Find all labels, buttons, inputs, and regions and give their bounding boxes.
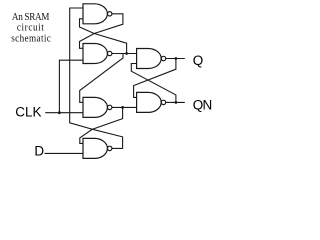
- wire CLK branch up to U2 lower input: [59, 60, 83, 112]
- wire U2 output to U5 top input: [112, 53, 137, 55]
- nand gate U5: [137, 49, 166, 69]
- wire D input horizontal: [45, 152, 84, 154]
- wire U3 output down to U4 top input: [80, 107, 123, 143]
- node U6 output junction: [175, 101, 178, 104]
- node CLK junction: [58, 111, 61, 114]
- node U3 output junction: [121, 106, 124, 109]
- wire U6 output feedback to U5 lower input: [131, 64, 176, 103]
- svg-text:D: D: [34, 144, 44, 159]
- nand gate U3: [83, 97, 112, 117]
- wire U1 output to U2 top input (cross-coupling): [80, 14, 123, 49]
- svg-text:schematic: schematic: [11, 33, 51, 45]
- node U2 output junction: [125, 52, 128, 55]
- nand gate U1: [83, 4, 112, 24]
- nand gate U2: [83, 44, 112, 64]
- wire U5 output feedback to U6 top input: [134, 59, 176, 98]
- wire U5 output to Q: [166, 58, 185, 60]
- wire U2 output down to U3 top input: [80, 54, 123, 103]
- wire U3 output to U6 lower input: [112, 106, 137, 108]
- node U5 output junction: [175, 57, 178, 60]
- svg-text:QN: QN: [193, 98, 212, 113]
- svg-text:CLK: CLK: [15, 105, 41, 120]
- nand gate U6: [137, 92, 166, 112]
- wire U6 output to QN: [166, 101, 185, 103]
- svg-text:Q: Q: [193, 53, 204, 68]
- wire U4 output feedback up to U1 top input: [70, 8, 123, 148]
- wire CLK input horizontal: [45, 112, 83, 114]
- wire U2 output feedback up to U1 lower input: [80, 19, 127, 54]
- nand gate U4: [83, 138, 112, 158]
